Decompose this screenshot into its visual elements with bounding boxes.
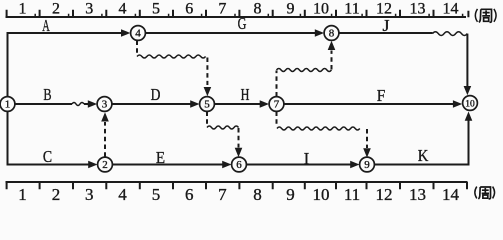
svg-text:C: C — [43, 147, 52, 166]
svg-text:10: 10 — [313, 185, 330, 204]
activity J free-float wavy — [433, 32, 468, 36]
activity A arrow (node 1 up to node 4) — [8, 29, 131, 97]
top ruler minor marks — [35, 14, 462, 17]
dummy 7-9 wavy float — [277, 127, 360, 130]
week unit label top: (zhou) — [475, 9, 496, 23]
svg-text:14: 14 — [443, 1, 459, 18]
svg-text:5: 5 — [204, 99, 210, 111]
activity J line (node 8 right) — [339, 32, 433, 34]
dummy arrow node 2 to node 3: dashed up — [101, 112, 109, 157]
svg-text:9: 9 — [287, 1, 295, 18]
svg-text:F: F — [377, 86, 386, 105]
svg-text:4: 4 — [135, 28, 141, 40]
svg-text:2: 2 — [52, 185, 61, 204]
svg-text:11: 11 — [344, 185, 360, 204]
svg-text:7: 7 — [274, 99, 280, 111]
svg-text:K: K — [418, 146, 429, 165]
svg-text:2: 2 — [52, 1, 60, 18]
svg-text:8: 8 — [329, 28, 335, 40]
activity E arrow (node 2 to node 6) — [112, 161, 231, 169]
svg-text:4: 4 — [119, 1, 127, 18]
svg-text:3: 3 — [85, 185, 94, 204]
activity B arrow head — [84, 100, 97, 108]
node 8 — [324, 26, 339, 41]
dummy 4-5 dashed down with arrow into node 5 — [204, 58, 212, 97]
dummy 5-6 wavy float — [207, 126, 239, 129]
dummy arrow node 7 to node 8: dashed rise — [276, 71, 278, 97]
svg-text:13: 13 — [409, 185, 426, 204]
svg-text:G: G — [238, 14, 247, 33]
svg-text:12: 12 — [376, 185, 393, 204]
svg-text:H: H — [241, 85, 250, 104]
top ruler major ticks — [7, 10, 469, 17]
activity B wavy part — [72, 103, 84, 106]
svg-text:4: 4 — [118, 185, 127, 204]
bottom ruler line — [6, 181, 468, 183]
svg-text:J: J — [383, 16, 390, 35]
node 3 — [97, 97, 112, 112]
dummy 4-5 wavy float — [137, 55, 206, 58]
svg-text:E: E — [156, 148, 165, 167]
svg-text:9: 9 — [286, 185, 295, 204]
dummy 7-9 dashed down with arrow into node 9 — [363, 129, 371, 158]
svg-text:A: A — [42, 16, 50, 35]
svg-text:6: 6 — [185, 185, 194, 204]
node 4 — [131, 26, 146, 41]
svg-text:5: 5 — [152, 185, 161, 204]
activity H arrow (node 5 to node 7) — [214, 100, 269, 108]
svg-text:2: 2 — [102, 159, 108, 171]
node 1 — [0, 97, 15, 112]
node 9 — [360, 157, 375, 172]
bottom ruler ticks — [7, 182, 467, 189]
svg-text:1: 1 — [5, 99, 11, 111]
dummy arrow node 5 to node 6: dashed drop — [206, 112, 208, 127]
node 2 — [98, 157, 113, 172]
svg-text:13: 13 — [410, 1, 426, 18]
svg-text:5: 5 — [152, 1, 160, 18]
svg-text:3: 3 — [102, 99, 108, 111]
svg-text:8: 8 — [253, 185, 262, 204]
svg-text:7: 7 — [218, 185, 227, 204]
activity G arrow (node 4 to node 8) — [145, 29, 324, 37]
svg-text:I: I — [304, 149, 310, 168]
activity J down arrow into node 10 — [464, 34, 472, 96]
activity D arrow (node 3 to node 5) — [112, 100, 200, 108]
node 6 — [232, 157, 247, 172]
node 5 — [200, 97, 215, 112]
dummy 7-8 wavy float — [277, 69, 332, 72]
activity B line (node 1 to node 3) — [15, 103, 72, 105]
activity C arrow (node 1 down to node 2) — [8, 112, 98, 169]
dummy 7-8 dashed up with arrow into node 8 — [328, 41, 336, 70]
svg-text:10: 10 — [465, 99, 475, 109]
dummy 5-6 dashed down with arrow into node 6 — [235, 128, 243, 157]
activity K arrow (node 9 right then up to node 10) — [374, 112, 472, 165]
top ruler line — [6, 16, 467, 18]
node 10 — [463, 96, 478, 111]
svg-text:7: 7 — [218, 1, 226, 18]
svg-text:1: 1 — [18, 185, 27, 204]
svg-text:D: D — [151, 85, 161, 104]
svg-text:14: 14 — [442, 185, 460, 204]
node 7 — [269, 97, 284, 112]
svg-text:6: 6 — [236, 159, 242, 171]
svg-text:6: 6 — [185, 1, 193, 18]
svg-text:11: 11 — [344, 1, 359, 18]
activity I arrow (node 6 to node 9) — [246, 161, 359, 169]
svg-text:B: B — [43, 85, 51, 104]
svg-text:12: 12 — [376, 1, 392, 18]
svg-text:3: 3 — [85, 1, 93, 18]
svg-text:9: 9 — [364, 159, 370, 171]
dummy arrow node 7 to node 9: dashed drop — [276, 112, 278, 128]
activity F arrow (node 7 to node 10) — [284, 100, 462, 108]
svg-text:1: 1 — [19, 1, 27, 18]
svg-text:8: 8 — [254, 1, 262, 18]
svg-text:10: 10 — [313, 1, 329, 18]
week unit label bottom: (zhou) — [475, 187, 495, 199]
dummy arrow node 4 to node 5: dashed drop — [136, 41, 138, 56]
